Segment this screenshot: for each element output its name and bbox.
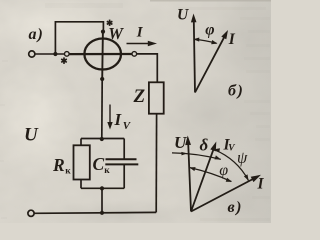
junction bottom (100, 211, 104, 215)
angle φ dimension diagram в (190, 168, 232, 182)
svg-text:C: C (93, 154, 105, 174)
angle φ dimension diagram б (194, 39, 216, 43)
svg-text:I: I (228, 31, 236, 48)
wire R bottom lead (80, 180, 82, 189)
svg-text:W: W (108, 24, 124, 43)
svg-text:U: U (174, 133, 187, 152)
svg-text:к: к (104, 166, 110, 176)
capacitor Cк plate top (106, 158, 137, 160)
junction wattmeter bottom (100, 77, 104, 81)
polarity asterisk (line side) (61, 57, 67, 64)
current arrow I (127, 43, 150, 45)
phasor I diagram в (191, 179, 253, 212)
phasor U diagram в (188, 143, 191, 212)
wire RC bottom (81, 187, 124, 189)
wattmeter W vertical wire (101, 32, 104, 79)
svg-text:φ: φ (205, 22, 214, 39)
svg-text:I: I (136, 24, 144, 40)
svg-text:ψ: ψ (237, 148, 248, 167)
wire coil terminal to wattmeter (69, 53, 132, 55)
terminal bottom-left (28, 210, 34, 216)
svg-text:к: к (65, 167, 71, 177)
svg-text:U: U (24, 125, 39, 146)
svg-text:V: V (228, 144, 235, 154)
polarity asterisk (voltage coil) (107, 20, 113, 26)
wire Z to bottom (155, 114, 157, 213)
capacitor Cк plate bottom (105, 163, 138, 165)
phasor I diagram б (195, 36, 225, 93)
terminal wattmeter current coil left (65, 52, 70, 57)
svg-text:Z: Z (133, 86, 146, 107)
angle δ dimension diagram в (172, 153, 221, 160)
resistor Rк (74, 145, 90, 179)
wire C top lead (123, 139, 125, 160)
junction wattmeter top (101, 30, 105, 34)
wire voltage-coil tap (bent) (55, 22, 103, 54)
junction RC bottom (100, 186, 104, 190)
wire to Z (137, 54, 158, 82)
svg-text:δ: δ (200, 136, 209, 155)
svg-text:I: I (257, 176, 265, 193)
svg-text:а): а) (29, 26, 44, 43)
junction top tap (53, 52, 57, 56)
phasor U diagram б (194, 21, 195, 93)
junction RC top (100, 137, 104, 141)
impedance Z (149, 82, 164, 113)
angle ψ dimension diagram в (215, 150, 249, 181)
wire C bottom lead (123, 164, 125, 188)
current arrow IV (109, 105, 111, 125)
wire voltage branch (101, 79, 103, 139)
wire R top lead (80, 139, 82, 146)
svg-text:R: R (52, 155, 65, 175)
wattmeter W (84, 39, 121, 70)
terminal top-left (29, 51, 35, 57)
wire top from terminal to coil terminal (35, 53, 64, 55)
svg-text:φ: φ (219, 162, 228, 179)
terminal wattmeter current coil right (132, 52, 137, 57)
wire RC to bottom rail (101, 188, 103, 212)
svg-text:U: U (177, 6, 189, 23)
wire RC top (81, 138, 124, 140)
phasor IV diagram в (191, 149, 214, 211)
paper background (0, 0, 271, 223)
wire bottom (34, 211, 156, 214)
svg-text:в): в) (228, 199, 243, 216)
svg-text:б): б) (228, 82, 244, 99)
